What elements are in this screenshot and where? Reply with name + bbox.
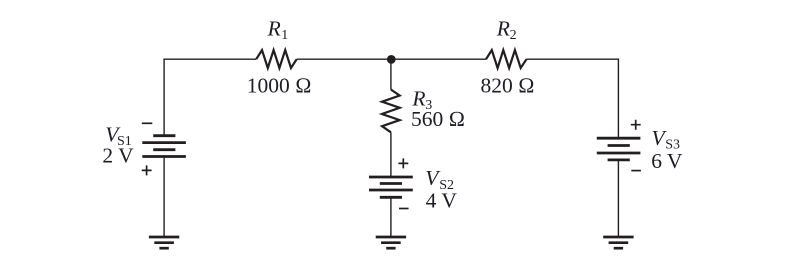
wire top-left horizontal (left branch to R1 left lead) <box>164 58 256 60</box>
value label 820 Ω <box>481 74 535 98</box>
wire middle-lower vertical (VS2 to ground) <box>390 197 392 237</box>
label R2 <box>496 16 517 43</box>
wire left vertical (top corner down to VS1 + terminal) <box>163 59 165 136</box>
battery VS2 (4 V source, + on top) <box>369 177 413 197</box>
label R3 <box>411 86 432 113</box>
plus sign of VS2 <box>398 158 408 168</box>
plus sign of VS1 <box>142 165 152 175</box>
value label 2 V <box>102 144 134 168</box>
wire middle vertical (R3 bottom lead to VS2 + terminal) <box>390 132 392 177</box>
minus sign of VS1 <box>142 122 153 124</box>
resistor R3 (vertical zigzag) <box>382 90 400 133</box>
label VS2 <box>425 166 454 193</box>
ground (right) <box>603 237 633 248</box>
node A (junction dot) <box>387 55 396 64</box>
svg-text:820 Ω: 820 Ω <box>481 74 535 98</box>
label VS3 <box>652 126 680 153</box>
resistor R1 (zigzag) <box>256 50 297 68</box>
wire top-right horizontal (R2 right lead to right branch) <box>527 58 619 60</box>
svg-text:2 V: 2 V <box>102 144 134 168</box>
wire right vertical (top corner down to VS3 + terminal) <box>617 59 619 139</box>
svg-text:R: R <box>267 16 281 40</box>
battery VS1 (2 V source, - on top) <box>142 136 186 157</box>
svg-text:R: R <box>496 16 510 40</box>
value label 1000 Ω <box>247 74 312 98</box>
svg-text:4 V: 4 V <box>426 188 458 212</box>
svg-text:560 Ω: 560 Ω <box>411 107 465 131</box>
svg-text:2: 2 <box>510 28 517 43</box>
minus sign of VS2 <box>399 208 409 210</box>
wire right-lower vertical (VS3 to ground) <box>617 160 619 237</box>
label R1 <box>267 16 289 43</box>
svg-text:1: 1 <box>281 28 288 43</box>
ground (left) <box>149 237 179 248</box>
plus sign of VS3 <box>631 120 641 130</box>
wire left-lower vertical (VS1 to ground) <box>163 157 165 238</box>
value label 6 V <box>651 149 683 173</box>
wire top-middle horizontal (R1 right lead to node A to R2 left lead) <box>297 58 487 60</box>
svg-text:6 V: 6 V <box>651 149 683 173</box>
svg-text:1000 Ω: 1000 Ω <box>247 74 312 98</box>
ground (middle) <box>376 237 406 248</box>
value label 560 Ω <box>411 107 465 131</box>
minus sign of VS3 <box>631 170 641 172</box>
label VS1 <box>105 123 131 150</box>
wire middle vertical (node A to R3 top lead) <box>390 59 392 89</box>
value label 4 V <box>426 188 458 212</box>
battery VS3 (6 V source, + on top) <box>597 138 641 160</box>
resistor R2 (zigzag) <box>486 50 527 68</box>
